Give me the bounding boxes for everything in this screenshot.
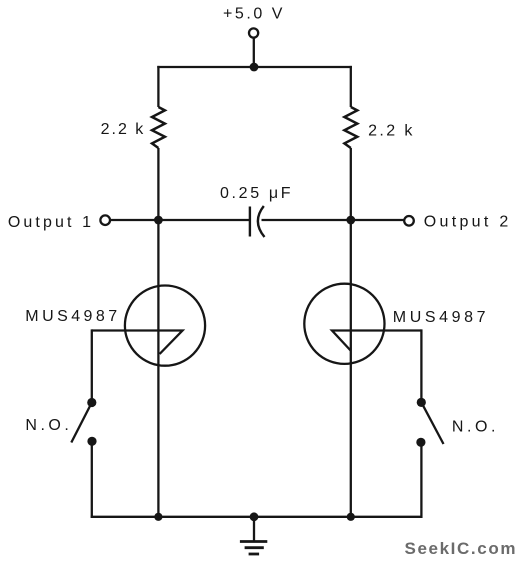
svg-text:N.O.: N.O. [25,417,72,434]
svg-text:0.25 μF: 0.25 μF [220,185,293,202]
svg-text:Output 2: Output 2 [424,214,512,231]
svg-text:N.O.: N.O. [452,419,499,436]
svg-text:MUS4987: MUS4987 [393,309,489,326]
svg-text:+5.0 V: +5.0 V [223,6,285,23]
svg-text:MUS4987: MUS4987 [25,308,120,325]
svg-text:2.2 k: 2.2 k [101,121,146,138]
svg-text:SeekIC.com: SeekIC.com [405,539,518,558]
svg-text:Output 1: Output 1 [8,214,94,231]
svg-text:2.2 k: 2.2 k [368,123,415,140]
